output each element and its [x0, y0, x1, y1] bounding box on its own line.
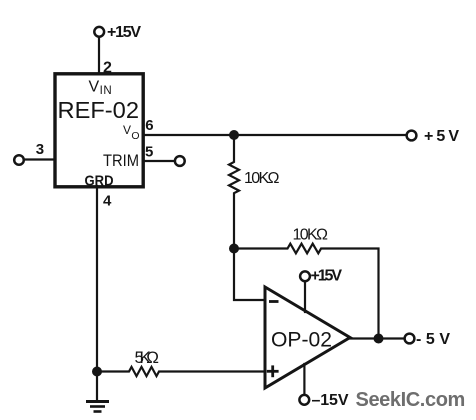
- svg-text:10KΩ: 10KΩ: [244, 170, 280, 187]
- svg-text:+ 5 V: + 5 V: [424, 128, 459, 145]
- svg-text:4: 4: [103, 193, 112, 210]
- svg-text:3: 3: [36, 141, 44, 158]
- svg-text:–15V: –15V: [312, 392, 349, 409]
- svg-text:SeekIC.com: SeekIC.com: [356, 389, 465, 411]
- svg-text:+15V: +15V: [107, 24, 141, 41]
- svg-text:+15V: +15V: [311, 267, 343, 284]
- svg-text:5: 5: [145, 143, 153, 160]
- svg-text:GRD: GRD: [85, 172, 114, 189]
- svg-text:- 5 V: - 5 V: [416, 331, 450, 348]
- svg-text:10KΩ: 10KΩ: [293, 226, 329, 243]
- svg-text:6: 6: [145, 117, 153, 134]
- svg-text:TRIM: TRIM: [103, 152, 139, 170]
- svg-text:REF-02: REF-02: [58, 97, 140, 123]
- svg-text:2: 2: [103, 59, 112, 76]
- svg-text:5KΩ: 5KΩ: [135, 348, 160, 367]
- svg-text:OP-02: OP-02: [271, 329, 332, 352]
